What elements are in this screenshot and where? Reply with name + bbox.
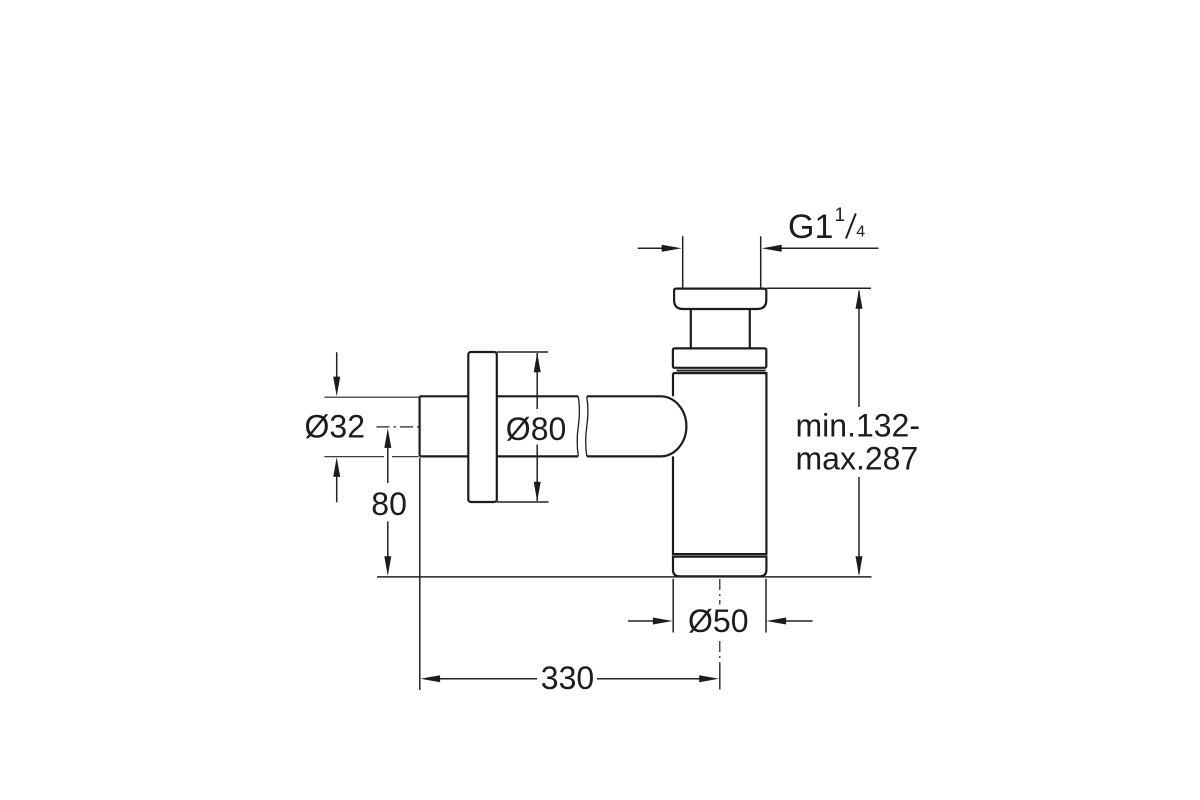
svg-text:max.287: max.287 [796, 441, 919, 477]
svg-text:Ø32: Ø32 [305, 409, 365, 445]
svg-text:4: 4 [856, 224, 865, 241]
svg-text:1: 1 [835, 205, 846, 226]
svg-text:330: 330 [541, 660, 594, 696]
svg-text:G1: G1 [788, 208, 833, 246]
svg-text:min.132-: min.132- [796, 408, 921, 444]
svg-text:Ø80: Ø80 [506, 411, 566, 447]
svg-text:80: 80 [371, 486, 407, 522]
svg-text:Ø50: Ø50 [688, 603, 748, 639]
